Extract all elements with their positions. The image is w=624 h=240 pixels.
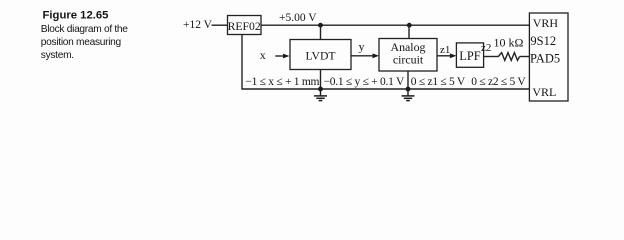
svg-text:x: x	[260, 48, 266, 62]
wire +5.00V supply rail	[261, 24, 529, 26]
svg-text:LPF: LPF	[459, 49, 481, 63]
junction dot LVDT ground	[318, 87, 323, 92]
low-pass filter block LPF	[456, 43, 483, 67]
resistor R 10 kOhm zigzag	[498, 53, 519, 61]
microcontroller block 9S12	[529, 13, 568, 101]
wire supply rail to analog circuit	[408, 25, 410, 38]
svg-text:Figure 12.65: Figure 12.65	[43, 9, 109, 21]
svg-text:PAD5: PAD5	[530, 52, 560, 66]
junction dot analog circuit ground	[406, 87, 411, 92]
arrow input x into LVDT	[275, 54, 289, 59]
svg-text:0 ≤ z2 ≤ 5 V: 0 ≤ z2 ≤ 5 V	[471, 76, 526, 88]
svg-text:−0.1 ≤ y ≤ + 0.1 V: −0.1 ≤ y ≤ + 0.1 V	[324, 76, 405, 88]
wire LVDT to ground rail	[320, 70, 322, 90]
svg-text:z1: z1	[440, 44, 450, 56]
svg-text:+12 V: +12 V	[183, 19, 213, 31]
svg-text:0 ≤ z1 ≤ 5 V: 0 ≤ z1 ≤ 5 V	[411, 76, 466, 88]
svg-text:position measuring: position measuring	[41, 37, 122, 48]
svg-text:−1 ≤ x ≤ + 1 mm: −1 ≤ x ≤ + 1 mm	[245, 76, 319, 88]
svg-text:REF02: REF02	[228, 20, 261, 33]
svg-text:y: y	[359, 39, 365, 53]
wire analog circuit to ground rail	[407, 71, 409, 89]
arrow analog circuit to LPF	[437, 53, 456, 58]
svg-text:LVDT: LVDT	[305, 49, 335, 62]
svg-text:system.: system.	[41, 50, 74, 61]
wire resistor to PAD5	[520, 56, 530, 58]
svg-text:VRL: VRL	[532, 85, 556, 99]
svg-text:9S12: 9S12	[530, 34, 556, 48]
arrow LVDT to analog circuit	[351, 53, 379, 58]
ground symbol under analog circuit	[402, 89, 415, 101]
svg-text:z2: z2	[481, 42, 491, 54]
voltage reference REF02	[228, 16, 262, 35]
junction dot LVDT supply	[318, 23, 323, 28]
ground symbol under LVDT	[314, 89, 327, 101]
wire +12V to REF02	[212, 24, 228, 26]
ground rail wire	[241, 88, 529, 90]
wire supply rail to LVDT	[320, 25, 322, 39]
svg-text:+5.00 V: +5.00 V	[279, 12, 317, 24]
svg-text:10 kΩ: 10 kΩ	[494, 36, 524, 50]
svg-text:Block diagram of the: Block diagram of the	[41, 24, 129, 35]
wire REF02 ground leg	[241, 35, 243, 90]
junction dot analog circuit supply	[407, 23, 412, 28]
LVDT block	[290, 40, 351, 70]
svg-text:circuit: circuit	[393, 53, 424, 67]
wire LPF to resistor	[484, 56, 499, 58]
svg-text:VRH: VRH	[533, 16, 559, 30]
analog circuit block	[379, 39, 437, 72]
